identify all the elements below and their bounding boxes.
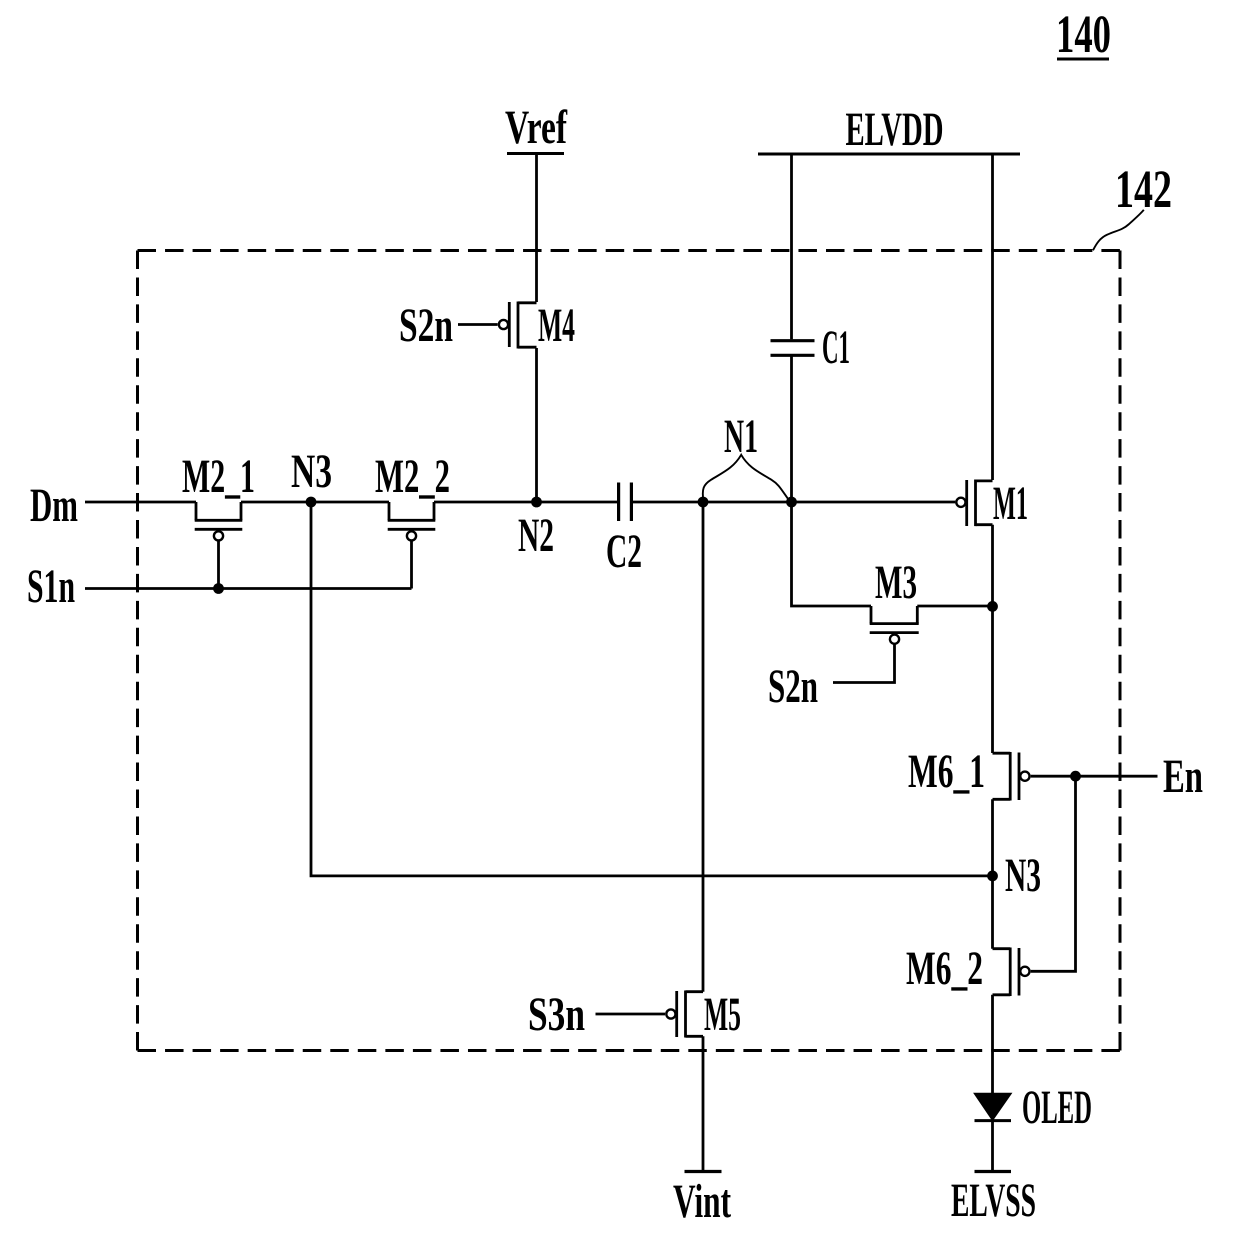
label N1 xyxy=(724,410,758,463)
transistor M4 xyxy=(499,301,537,348)
label C2 xyxy=(606,525,642,578)
label M2_1 xyxy=(182,450,255,503)
node N3 right junction xyxy=(987,871,998,882)
transistor M5 xyxy=(666,991,703,1038)
wire M4 source to node N2 xyxy=(535,348,538,502)
terminal Vref bar xyxy=(507,152,564,155)
svg-text:M2_2: M2_2 xyxy=(375,450,450,503)
diode OLED xyxy=(974,1094,1011,1121)
svg-text:M6_2: M6_2 xyxy=(906,942,983,995)
label N3 left xyxy=(291,445,332,498)
wire Dm to M2_1 xyxy=(85,501,196,504)
svg-text:C1: C1 xyxy=(822,321,850,374)
wire S2n to M4 gate xyxy=(458,323,498,326)
label M2_2 xyxy=(375,450,450,503)
svg-text:M1: M1 xyxy=(993,477,1028,530)
wire M2_1 to M2_2 xyxy=(241,501,389,504)
label C1 xyxy=(822,321,850,374)
svg-text:N3: N3 xyxy=(1005,849,1041,902)
label S1n xyxy=(27,560,75,613)
ELVDD power rail xyxy=(758,153,1020,156)
label M4 xyxy=(538,299,575,352)
label N3 right xyxy=(1005,849,1041,902)
wire C1 to node N1 xyxy=(790,357,793,503)
wire node1 down to M5 xyxy=(702,502,705,992)
wire node N3 down and across to right N3 node xyxy=(311,502,993,876)
label Dm xyxy=(30,479,78,532)
underline of 140 xyxy=(1057,58,1109,61)
wire M2_2 gate to S1n xyxy=(410,541,413,589)
wire M2_2 to C2 xyxy=(434,501,617,504)
wire M3 gate to S2n xyxy=(833,644,895,682)
dashed block boundary 142 right edge xyxy=(1118,251,1121,1051)
node N2 junction xyxy=(531,497,542,508)
transistor M2_1 xyxy=(195,502,243,541)
label ELVSS xyxy=(951,1174,1036,1227)
wire M3 node down to M6_1 xyxy=(991,606,994,753)
svg-text:En: En xyxy=(1163,750,1203,803)
brace pointer from N1 label to nodes xyxy=(703,455,790,501)
label S2n at M4 xyxy=(399,299,453,352)
wire Vref to M4 drain xyxy=(535,153,538,302)
svg-text:M3: M3 xyxy=(875,556,917,609)
wire M1 drain down to M3 node xyxy=(991,525,994,607)
svg-text:ELVDD: ELVDD xyxy=(846,103,944,156)
label M6_2 xyxy=(906,942,983,995)
junction M3 drain with M1 column xyxy=(987,601,998,612)
transistor M1 xyxy=(956,480,992,527)
transistor M3 xyxy=(870,606,919,644)
svg-text:M2_1: M2_1 xyxy=(182,450,255,503)
label M1 xyxy=(993,477,1028,530)
svg-text:Vint: Vint xyxy=(673,1175,731,1228)
dashed block boundary 142 bottom edge xyxy=(137,1049,1120,1052)
svg-text:S2n: S2n xyxy=(768,660,818,713)
svg-text:S3n: S3n xyxy=(528,988,585,1041)
wire M3 to M1 drain node xyxy=(917,605,992,608)
svg-text:M5: M5 xyxy=(704,988,741,1041)
svg-text:N3: N3 xyxy=(291,445,332,498)
capacitor C1 xyxy=(771,341,815,356)
label N2 xyxy=(518,509,554,562)
dashed block boundary 142 top edge xyxy=(138,249,1120,252)
svg-text:Vref: Vref xyxy=(505,101,568,154)
label M6_1 xyxy=(908,745,985,798)
wire S3n to M5 gate xyxy=(595,1013,665,1016)
label S2n at M3 xyxy=(768,660,818,713)
label Vint xyxy=(673,1175,731,1228)
leader line from 142 to dashed box xyxy=(1093,210,1144,251)
terminal ELVDD label xyxy=(846,103,944,156)
label 140 xyxy=(1056,4,1111,64)
svg-text:C2: C2 xyxy=(606,525,642,578)
svg-text:N2: N2 xyxy=(518,509,554,562)
svg-text:OLED: OLED xyxy=(1022,1081,1092,1134)
junction S1n with M2_1 gate xyxy=(213,583,224,594)
svg-text:140: 140 xyxy=(1056,4,1111,64)
wire En node down to M6_2 gate xyxy=(1031,776,1076,971)
wire M6_2 down to OLED xyxy=(991,995,994,1094)
wire En node to En terminal xyxy=(1075,775,1157,778)
wire M6_1 to M6_2 xyxy=(991,799,994,949)
wire M5 down to Vint terminal xyxy=(702,1036,705,1171)
svg-text:S2n: S2n xyxy=(399,299,453,352)
label M5 xyxy=(704,988,741,1041)
terminal Vref label xyxy=(505,101,568,154)
svg-text:M6_1: M6_1 xyxy=(908,745,985,798)
dashed block boundary 142 left edge xyxy=(136,250,139,1050)
node N3 junction on data line xyxy=(306,497,317,508)
label En xyxy=(1163,750,1203,803)
label OLED xyxy=(1022,1081,1092,1134)
wire S1n scan line xyxy=(85,587,412,590)
svg-text:S1n: S1n xyxy=(27,560,75,613)
junction node at M5 branch xyxy=(698,497,709,508)
wire M6_1 gate to En node xyxy=(1031,775,1076,778)
transistor M6_2 xyxy=(992,948,1029,997)
capacitor C2 xyxy=(619,483,632,522)
label 142 xyxy=(1115,159,1172,219)
svg-text:Dm: Dm xyxy=(30,479,78,532)
transistor M6_1 xyxy=(992,752,1029,801)
svg-text:M4: M4 xyxy=(538,299,575,352)
label M3 xyxy=(875,556,917,609)
wire ELVDD to C1 xyxy=(790,154,793,339)
wire node N1 down to M3 xyxy=(792,502,872,606)
wire OLED to ELVSS terminal xyxy=(991,1121,994,1172)
label S3n xyxy=(528,988,585,1041)
terminal Vint bar xyxy=(684,1170,721,1173)
node N1 junction xyxy=(786,497,797,508)
svg-text:ELVSS: ELVSS xyxy=(951,1174,1036,1227)
transistor M2_2 xyxy=(388,502,436,541)
junction En xyxy=(1070,771,1081,782)
wire C2 to M1 gate xyxy=(633,501,956,504)
wire ELVDD to M1 source xyxy=(991,154,994,480)
wire M2_1 gate to S1n xyxy=(217,541,220,589)
terminal ELVSS bar xyxy=(974,1170,1011,1173)
